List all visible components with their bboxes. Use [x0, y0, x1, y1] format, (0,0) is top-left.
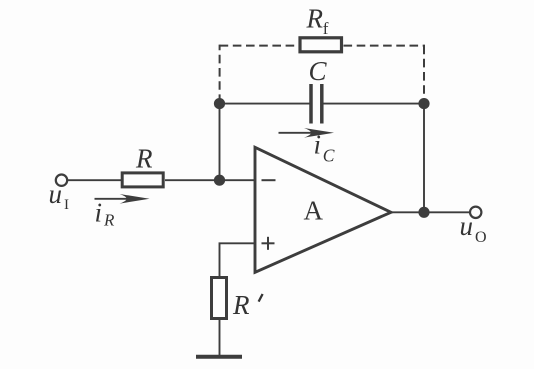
capacitor C: [309, 84, 313, 124]
dashed wire right vertical: [423, 46, 425, 100]
label R prime mark: [259, 294, 263, 302]
svg-text:R: R: [232, 290, 250, 320]
svg-text:I: I: [64, 197, 69, 213]
op-amp A: [255, 147, 391, 272]
resistor R': [212, 278, 227, 319]
svg-text:R: R: [103, 210, 115, 229]
node output: [418, 207, 429, 218]
node capacitor left: [214, 98, 225, 109]
wire R to inverting input: [165, 179, 255, 181]
current arrow i_C: [279, 132, 321, 134]
svg-text:u: u: [49, 179, 63, 209]
svg-text:R: R: [135, 143, 153, 173]
dashed wire left vertical: [219, 45, 221, 103]
node capacitor right: [418, 98, 429, 109]
current arrow i_R: [95, 198, 137, 200]
terminal u_I: [56, 175, 67, 186]
svg-text:u: u: [460, 211, 474, 241]
wire R' to ground: [219, 319, 221, 357]
svg-text:i: i: [95, 198, 103, 228]
wire output: [390, 211, 470, 213]
plus input symbol: [262, 242, 275, 244]
svg-text:C: C: [323, 145, 335, 165]
wire capacitor right: [323, 103, 424, 105]
node A (inverting input): [214, 175, 225, 186]
wire noninverting input: [220, 243, 256, 277]
svg-text:R: R: [306, 4, 324, 34]
wire capacitor left: [220, 103, 310, 105]
ground: [196, 355, 242, 359]
svg-text:A: A: [304, 195, 324, 225]
wire input: [68, 179, 121, 181]
wire node to capacitor branch: [219, 104, 221, 181]
wire to output node: [423, 104, 425, 213]
svg-text:O: O: [475, 229, 487, 246]
svg-text:f: f: [323, 19, 329, 38]
minus input symbol: [262, 179, 276, 181]
dashed wire top right horizontal: [344, 45, 426, 47]
resistor R: [122, 173, 163, 187]
resistor Rf: [300, 38, 342, 52]
svg-text:i: i: [314, 130, 322, 160]
dashed wire top left horizontal: [220, 45, 298, 47]
svg-text:C: C: [309, 56, 328, 86]
terminal u_O: [470, 207, 481, 218]
